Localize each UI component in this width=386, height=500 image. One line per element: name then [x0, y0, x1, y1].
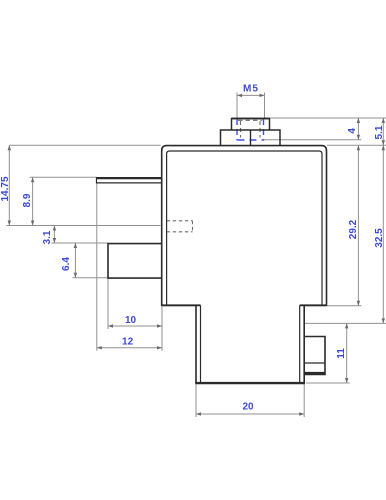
svg-text:8.9: 8.9: [22, 193, 33, 207]
svg-text:M5: M5: [243, 84, 259, 95]
svg-text:10: 10: [125, 315, 137, 326]
svg-text:5.1: 5.1: [374, 125, 385, 139]
svg-text:3.1: 3.1: [42, 230, 53, 244]
svg-text:11: 11: [336, 348, 347, 359]
svg-text:12: 12: [122, 336, 134, 347]
svg-text:6.4: 6.4: [61, 257, 72, 271]
svg-text:4: 4: [347, 128, 358, 134]
svg-text:14.75: 14.75: [0, 176, 11, 201]
svg-text:32.5: 32.5: [374, 228, 385, 248]
svg-text:20: 20: [242, 402, 254, 413]
svg-text:29.2: 29.2: [348, 219, 359, 239]
